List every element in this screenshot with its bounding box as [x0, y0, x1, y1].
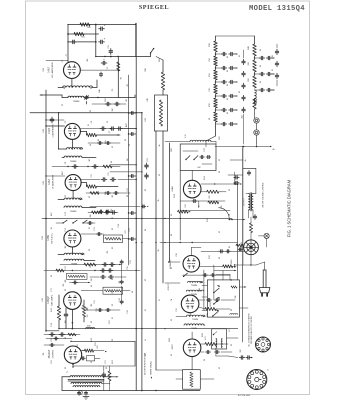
- capacitor C61: [259, 72, 271, 75]
- resistor R14b: [108, 371, 111, 381]
- svg-text:05: 05: [260, 49, 262, 51]
- label: [130, 260, 132, 263]
- oscillator coil L20: [255, 90, 257, 104]
- title SPIEGEL: [139, 5, 169, 11]
- capacitor C28b: [234, 176, 239, 185]
- capacitor C26: [203, 274, 216, 277]
- label: [231, 259, 233, 264]
- svg-text:01: 01: [272, 69, 274, 71]
- wire: [84, 98, 98, 105]
- wire: [82, 350, 104, 352]
- svg-text:05: 05: [227, 84, 229, 86]
- wire: [255, 89, 275, 90]
- wire: [215, 66, 217, 70]
- resistor R4: [87, 185, 97, 188]
- wire: [215, 94, 217, 98]
- svg-text:12SQ7: 12SQ7: [210, 300, 212, 307]
- wire: [59, 149, 96, 158]
- wire: [44, 344, 64, 346]
- wire: [45, 90, 47, 331]
- wire: [68, 33, 99, 35]
- ballast coil: [190, 372, 193, 387]
- label: [61, 170, 64, 174]
- label: [98, 172, 110, 193]
- svg-text:C14: C14: [118, 224, 120, 227]
- wire: [58, 112, 59, 149]
- electrolytic can C40 box: [155, 95, 168, 131]
- wire: [239, 307, 248, 309]
- label: [227, 112, 229, 114]
- svg-text:C11: C11: [108, 172, 110, 175]
- svg-text:R.F. AMPLIFIER: R.F. AMPLIFIER: [51, 62, 54, 78]
- arrow: [198, 201, 199, 208]
- label: [127, 266, 129, 269]
- resistor R8: [56, 269, 64, 272]
- label: [209, 88, 211, 91]
- row y282: [70, 282, 91, 283]
- label: [111, 209, 113, 211]
- label: [127, 84, 129, 86]
- capacitor C71: [275, 61, 278, 66]
- wire bus: [141, 113, 143, 391]
- hook wire: [219, 208, 233, 221]
- wire long: [160, 242, 238, 243]
- speaker SP1: [244, 240, 259, 255]
- wire: [200, 266, 236, 267]
- svg-text:TRIMM: TRIMM: [191, 285, 197, 287]
- svg-text:2M: 2M: [112, 108, 114, 111]
- tube V3 IF amplifier: [65, 175, 81, 191]
- wire: [199, 299, 235, 301]
- wire: [228, 160, 243, 175]
- tube V5 1st audio: [64, 292, 82, 310]
- svg-text:R12: R12: [97, 345, 99, 348]
- switch S8: [183, 273, 188, 277]
- capacitor C45: [221, 122, 234, 125]
- svg-text:TRIMM: TRIMM: [70, 161, 77, 163]
- capacitor C34: [206, 350, 220, 353]
- resistor R24: [205, 342, 216, 345]
- label: [260, 49, 262, 51]
- label motor text: [145, 352, 147, 375]
- label: [107, 251, 109, 253]
- svg-text:AVC: AVC: [61, 170, 64, 174]
- svg-text:05: 05: [227, 112, 229, 114]
- svg-text:R9: R9: [63, 284, 65, 286]
- label: [118, 224, 120, 227]
- wire: [81, 308, 88, 311]
- label V8: [169, 259, 172, 269]
- capacitor C9: [50, 117, 54, 123]
- svg-text:R16: R16: [221, 205, 223, 208]
- capacitor C8: [117, 127, 123, 131]
- label: [147, 98, 149, 101]
- caps y211: [99, 210, 112, 213]
- capacitor C40: [221, 52, 234, 55]
- wire: [202, 286, 207, 311]
- L21 winding A: [216, 338, 217, 348]
- label: [207, 218, 209, 221]
- svg-text:C15: C15: [130, 260, 132, 263]
- wire: [199, 307, 230, 309]
- wire: [256, 144, 258, 147]
- wire: [118, 95, 135, 98]
- wire: [90, 276, 126, 278]
- wire: [235, 172, 242, 185]
- trimmer coil L2: [68, 96, 84, 103]
- T1 secondary: [71, 382, 102, 383]
- wire: [120, 128, 137, 129]
- wire: [56, 222, 95, 224]
- resistor R32: [214, 70, 218, 80]
- label: [105, 140, 107, 143]
- arrow B+: [270, 146, 272, 147]
- wire: [68, 41, 96, 43]
- svg-text:35L6GT: 35L6GT: [48, 349, 51, 358]
- pilot lamp PL1: [254, 118, 259, 123]
- svg-text:OSC: OSC: [248, 77, 250, 82]
- capacitor C43: [98, 141, 111, 144]
- wire: [110, 164, 137, 165]
- svg-text:330: 330: [248, 62, 250, 65]
- node: [135, 242, 165, 244]
- resistor R17: [178, 210, 189, 213]
- wire B+ line: [215, 146, 270, 148]
- svg-text:05: 05: [227, 70, 229, 72]
- label: [174, 194, 176, 197]
- label: [63, 284, 65, 286]
- wire: [95, 357, 100, 359]
- svg-text:SW2: SW2: [202, 333, 204, 337]
- wire: [72, 191, 74, 199]
- label: [219, 135, 221, 140]
- resistor R21: [74, 32, 84, 35]
- svg-text:50: 50: [209, 118, 211, 120]
- capacitor C15: [102, 263, 115, 267]
- capacitor C4: [99, 72, 102, 77]
- wire bus: [155, 131, 157, 370]
- wire: [206, 122, 216, 141]
- label: [127, 188, 129, 191]
- wire: [135, 23, 136, 56]
- svg-text:02: 02: [239, 55, 241, 57]
- svg-text:R15: R15: [209, 195, 211, 198]
- label: [119, 298, 121, 301]
- tuning coil L4: [64, 156, 82, 163]
- wire: [68, 25, 136, 62]
- wire: [229, 219, 245, 220]
- svg-text:+: +: [104, 36, 106, 40]
- label: [248, 77, 250, 82]
- L21 winding B: [221, 338, 222, 348]
- resistor R42: [253, 76, 257, 88]
- capacitor C30: [99, 23, 106, 31]
- wire: [243, 168, 256, 193]
- capacitor C12: [110, 178, 116, 182]
- coil L6: [64, 206, 82, 213]
- label X1 text: [248, 313, 254, 347]
- wire: [83, 300, 85, 322]
- T1 secondary2: [73, 386, 100, 387]
- wire bus: [162, 131, 164, 283]
- svg-text:12A8: 12A8: [171, 186, 174, 192]
- svg-text:R1: R1: [121, 77, 123, 79]
- capacitor C50: [242, 59, 245, 64]
- svg-text:T1: T1: [67, 371, 69, 373]
- svg-text:1M: 1M: [127, 158, 129, 161]
- wire: [191, 171, 193, 181]
- label: [176, 253, 178, 256]
- wire: [250, 217, 252, 240]
- label: [129, 228, 131, 231]
- capacitor C44: [221, 108, 234, 111]
- arrow: [80, 148, 82, 150]
- wire: [81, 233, 104, 235]
- capacitor C5: [105, 102, 120, 106]
- coil row M3a: [186, 315, 205, 321]
- row y264: [60, 264, 122, 266]
- label volume: [263, 182, 265, 207]
- wire: [203, 270, 205, 310]
- wire: [239, 286, 246, 287]
- label: [229, 328, 231, 331]
- label: [272, 69, 274, 71]
- svg-text:SPIEGEL: SPIEGEL: [139, 5, 169, 11]
- svg-text:MODEL 1315Q4: MODEL 1315Q4: [249, 5, 305, 13]
- wire: [46, 60, 68, 62]
- svg-text:L21: L21: [229, 328, 231, 331]
- svg-text:152: 152: [87, 315, 89, 318]
- output transformer T2 primary: [248, 194, 250, 210]
- tube V2 converter: [64, 123, 80, 139]
- wire: [123, 231, 130, 239]
- capacitor C72: [275, 73, 278, 78]
- label shunt text: [150, 361, 153, 379]
- wire: [104, 366, 110, 391]
- wire: [95, 25, 97, 57]
- switch S3: [185, 156, 198, 161]
- label: [132, 291, 134, 293]
- svg-text:L7: L7: [268, 369, 270, 371]
- capacitor C45: [98, 308, 111, 311]
- label: [209, 58, 211, 61]
- svg-text:DET. AMPL.: DET. AMPL.: [51, 294, 54, 306]
- resistor R30: [214, 41, 218, 52]
- svg-text:+: +: [104, 23, 106, 27]
- svg-text:2M: 2M: [65, 320, 67, 323]
- resistor R18: [223, 265, 233, 268]
- row y143: [88, 142, 120, 144]
- wire: [80, 131, 120, 135]
- wire bus: [169, 143, 171, 262]
- wire: [68, 61, 72, 87]
- arrow: [119, 264, 121, 265]
- wire: [216, 275, 230, 280]
- label V7: [171, 186, 174, 192]
- capacitor tap: [128, 175, 137, 178]
- power transformer T1 primary: [70, 376, 103, 377]
- row y201: [180, 200, 225, 202]
- label: [87, 300, 96, 317]
- capacitor C3: [101, 58, 107, 65]
- svg-text:OUTPUT: OUTPUT: [244, 197, 246, 205]
- wire: [73, 363, 135, 366]
- label: [176, 308, 178, 311]
- capacitor C60: [259, 56, 271, 59]
- svg-text:C24: C24: [185, 204, 187, 207]
- row y212: [88, 211, 118, 213]
- svg-text:250: 250: [209, 58, 211, 61]
- label: [227, 70, 229, 72]
- coil row M2b: [186, 290, 204, 296]
- switch S6: [213, 297, 220, 305]
- svg-text:R31: R31: [209, 73, 211, 76]
- switch S7: [212, 309, 219, 316]
- label: [94, 227, 96, 230]
- label: [98, 121, 127, 141]
- resistor R33: [214, 84, 218, 94]
- switch S2 power: [150, 48, 155, 57]
- svg-text:C1: C1: [62, 60, 64, 62]
- svg-text:R14: R14: [174, 194, 176, 197]
- wire: [215, 80, 217, 84]
- svg-text:14A7: 14A7: [48, 67, 51, 73]
- wire: [84, 309, 120, 311]
- svg-text:T4: T4: [171, 299, 173, 301]
- wire: [255, 73, 275, 74]
- svg-text:TRIMM: TRIMM: [192, 319, 198, 321]
- capacitor C32: [99, 36, 106, 43]
- wire: [246, 194, 256, 218]
- row y338: [46, 337, 72, 340]
- node: [67, 166, 88, 167]
- wire: [216, 348, 228, 356]
- label: [248, 62, 250, 65]
- label: [227, 84, 229, 86]
- antenna coil L1: [63, 86, 93, 88]
- svg-text:R18: R18: [209, 255, 211, 258]
- wire: [201, 183, 235, 184]
- svg-text:35Z3: 35Z3: [172, 344, 174, 350]
- title MODEL 1315Q4: [249, 5, 305, 13]
- wire: [81, 183, 118, 187]
- wire: [216, 123, 238, 124]
- AC plug prong: [266, 293, 268, 297]
- tube V9 2nd det: [181, 295, 199, 313]
- resistor R7: [84, 263, 96, 266]
- arrow: [105, 351, 107, 352]
- wire: [117, 57, 119, 98]
- row y193: [86, 192, 130, 194]
- capacitor C25: [219, 250, 231, 253]
- capacitor tap: [128, 133, 137, 136]
- svg-text:AVC: AVC: [125, 122, 128, 127]
- capacitor C33: [109, 49, 113, 55]
- label: [50, 211, 53, 215]
- svg-text:C23: C23: [147, 158, 149, 161]
- svg-text:OUTPUT: OUTPUT: [53, 349, 55, 358]
- wire: [216, 53, 238, 54]
- label: [105, 97, 107, 102]
- label: [272, 55, 274, 57]
- svg-text:14Q7: 14Q7: [48, 127, 51, 134]
- svg-text:250M: 250M: [231, 259, 233, 264]
- wire: [81, 128, 121, 130]
- svg-text:R11: R11: [109, 320, 111, 323]
- resistor R1: [117, 62, 120, 71]
- wire: [165, 142, 216, 145]
- svg-text:C6: C6: [107, 121, 109, 123]
- row y270: [44, 270, 140, 272]
- label V5: [47, 294, 54, 306]
- svg-text:FIG. 1 SCHEMATIC DIAGRAM: FIG. 1 SCHEMATIC DIAGRAM: [287, 179, 292, 237]
- capacitor C51: [242, 71, 245, 76]
- wire: [256, 135, 258, 144]
- label: [95, 342, 97, 345]
- label: [62, 67, 123, 106]
- wire: [254, 109, 256, 118]
- label: [197, 167, 202, 169]
- label: [62, 60, 64, 62]
- cluster: [236, 244, 244, 251]
- wire: [96, 56, 151, 58]
- choke box L9: [103, 287, 123, 294]
- resistor R22: [159, 100, 162, 126]
- label V10: [172, 344, 174, 350]
- svg-text:R32: R32: [209, 103, 211, 106]
- capacitor C62: [259, 88, 271, 91]
- wire: [81, 290, 130, 292]
- capacitor C42: [221, 80, 234, 83]
- svg-text:R15: R15: [207, 218, 209, 221]
- svg-text:C8: C8: [129, 144, 131, 146]
- label: [99, 89, 101, 92]
- svg-text:WITH 1000 OHM PER VOLT METER: WITH 1000 OHM PER VOLT METER: [251, 315, 253, 344]
- node: [110, 128, 119, 136]
- resistor R31: [214, 56, 218, 66]
- capacitor C2 trimmer: [85, 95, 89, 100]
- label: [158, 248, 160, 251]
- wire: [176, 313, 190, 317]
- capacitor C54: [242, 107, 245, 112]
- svg-text:C31: C31: [176, 308, 178, 311]
- switch S9: [213, 332, 217, 336]
- wire: [255, 57, 275, 58]
- tube V7 oscillator: [183, 180, 201, 198]
- wire: [97, 97, 118, 98]
- svg-text:C13: C13: [129, 228, 131, 231]
- capacitor C23: [145, 163, 149, 179]
- wire: [215, 52, 217, 56]
- svg-text:C11: C11: [91, 174, 93, 177]
- svg-text:C16: C16: [127, 266, 129, 269]
- node: [58, 56, 97, 150]
- wire: [92, 103, 126, 105]
- wire: [168, 261, 180, 262]
- tube V8 IF amplifier2: [183, 255, 200, 272]
- switch box B1: [180, 144, 216, 171]
- svg-text:05: 05: [227, 56, 229, 58]
- wire: [191, 248, 201, 256]
- capacitor C24: [192, 199, 197, 202]
- svg-text:2M: 2M: [90, 214, 92, 217]
- node: [72, 270, 137, 271]
- wire: [72, 309, 74, 329]
- svg-text:TRIMM: TRIMM: [70, 211, 77, 213]
- label X2 text: [238, 369, 269, 397]
- wire: [234, 255, 256, 266]
- label V4: [47, 232, 54, 243]
